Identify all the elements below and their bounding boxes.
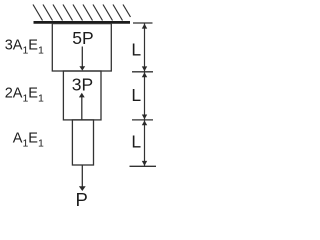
- segment 1 box (3A1E1): [52, 24, 111, 71]
- svg-text:L: L: [131, 131, 141, 151]
- P load arrow shaft: [81, 166, 83, 188]
- dim arrowhead below tick y=71.8 (up): [142, 72, 147, 77]
- dim arrowhead top (up): [142, 24, 147, 29]
- svg-text:L: L: [131, 39, 141, 59]
- 5P arrowhead (down): [79, 66, 85, 70]
- 5P load arrow shaft: [81, 47, 83, 68]
- segment 3 box (A1E1): [72, 120, 93, 165]
- dimension tick at free end: [130, 165, 157, 167]
- dimension tick at segment 1/2 boundary: [132, 71, 153, 73]
- dim arrowhead above tick y=71.8 (down): [142, 66, 147, 71]
- dim arrowhead below tick y=119.9 (up): [142, 121, 147, 126]
- dim arrowhead above tick y=119.9 (down): [142, 115, 147, 120]
- 3P arrowhead (up): [79, 93, 85, 98]
- P arrowhead (down): [79, 186, 86, 191]
- svg-text:L: L: [131, 85, 141, 105]
- svg-text:5P: 5P: [72, 28, 93, 48]
- 3P load arrow shaft: [81, 97, 83, 120]
- dim arrowhead bottom (down): [142, 161, 147, 166]
- segment 2 box (2A1E1): [63, 71, 101, 120]
- hatching of fixed support: [33, 5, 131, 21]
- dimension tick at segment 2/3 boundary: [132, 119, 153, 121]
- svg-text:P: P: [76, 189, 88, 210]
- ceiling line: [34, 21, 131, 24]
- dimension vertical line: [144, 23, 146, 166]
- dimension tick at ceiling: [133, 22, 153, 24]
- svg-text:3P: 3P: [72, 74, 93, 94]
